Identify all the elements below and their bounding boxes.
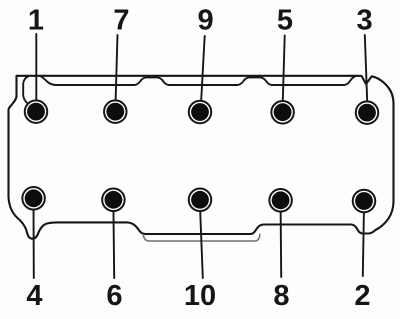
leader line 5	[283, 36, 285, 105]
left end pocket detail line	[23, 76, 28, 104]
svg-text:4: 4	[26, 280, 42, 312]
bolt 7 ring	[104, 100, 127, 123]
bolt 7 head	[106, 103, 124, 121]
leader line 7	[116, 35, 118, 104]
bolt 2 head	[355, 192, 373, 210]
leader line 10	[200, 206, 203, 278]
top band inner line with domes	[41, 76, 356, 85]
bolt 10 head	[191, 191, 209, 209]
leader line 8	[280, 206, 283, 277]
svg-text:10: 10	[184, 280, 216, 312]
bolt 5 ring	[271, 101, 294, 124]
bolt 9 head	[191, 103, 209, 121]
leader line 2	[363, 206, 364, 276]
bolt 6 head	[105, 191, 123, 209]
bolt 8 head	[272, 191, 290, 209]
svg-text:7: 7	[113, 5, 129, 37]
leader line 9	[201, 36, 205, 104]
svg-text:5: 5	[277, 5, 293, 37]
bolt 1 head	[27, 103, 45, 121]
bolt 3 head	[358, 104, 376, 122]
bolt 4 ring	[22, 187, 45, 210]
bolt 9 ring	[189, 101, 212, 124]
leader line 3	[365, 35, 368, 104]
leader line 6	[112, 206, 115, 278]
svg-text:1: 1	[28, 5, 44, 37]
svg-text:3: 3	[357, 5, 373, 37]
svg-text:2: 2	[354, 280, 370, 312]
leader line 1	[35, 34, 37, 104]
bolt 2 ring	[353, 190, 376, 213]
bolt 4 head	[25, 189, 43, 207]
leader line 4	[33, 206, 35, 278]
svg-text:8: 8	[273, 280, 289, 312]
bolt 8 ring	[269, 189, 292, 212]
svg-text:9: 9	[198, 5, 214, 37]
svg-text:6: 6	[106, 280, 122, 312]
bolt 6 ring	[102, 189, 125, 212]
bolt 10 ring	[189, 189, 212, 212]
bolt 5 head	[274, 103, 292, 121]
cylinder head outer contour	[9, 76, 394, 239]
bolt 3 ring	[356, 101, 379, 124]
bolt 1 ring	[25, 100, 48, 123]
bottom flange detail line	[143, 234, 260, 241]
